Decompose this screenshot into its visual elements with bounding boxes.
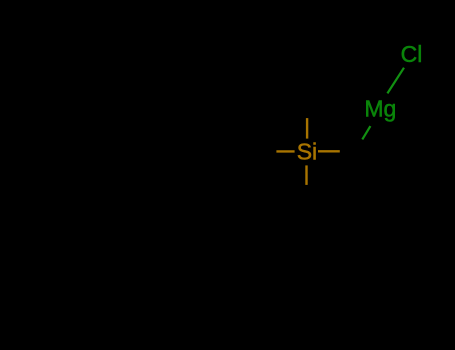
bond Mg-Cl wire bbox=[387, 68, 404, 94]
svg-text:Si: Si bbox=[297, 139, 317, 165]
bond Si-CH3 left wire bbox=[276, 150, 294, 152]
bond Si-CH3 up wire bbox=[306, 118, 308, 139]
svg-text:Mg: Mg bbox=[364, 96, 396, 122]
bond Si-CH3 down wire bbox=[305, 165, 307, 185]
bond CH2-Mg green segment bbox=[362, 126, 370, 139]
bond Si-CH2 right wire bbox=[318, 150, 340, 152]
svg-text:Cl: Cl bbox=[401, 41, 423, 67]
